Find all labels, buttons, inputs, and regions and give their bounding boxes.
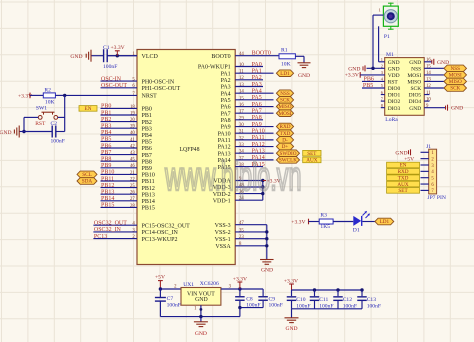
svg-text:2: 2	[381, 64, 383, 69]
svg-text:PB9: PB9	[142, 166, 152, 172]
svg-text:100nF: 100nF	[296, 303, 310, 309]
svg-text:PB11: PB11	[101, 176, 114, 182]
svg-text:PB5: PB5	[142, 140, 152, 146]
svg-text:PB6: PB6	[101, 143, 111, 149]
svg-text:PB2: PB2	[101, 117, 111, 123]
svg-text:EN: EN	[400, 163, 407, 169]
svg-text:AUX: AUX	[397, 182, 408, 188]
svg-text:23: 23	[239, 235, 244, 240]
svg-text:NRST: NRST	[142, 94, 158, 100]
svg-text:PC13: PC13	[94, 234, 107, 240]
svg-text:EN: EN	[85, 106, 92, 112]
svg-text:PA3: PA3	[221, 85, 231, 91]
svg-text:MISO: MISO	[279, 104, 292, 110]
svg-text:PA3: PA3	[252, 82, 262, 88]
svg-text:DIO4: DIO4	[409, 99, 422, 105]
svg-text:PB1: PB1	[142, 113, 152, 119]
svg-text:45: 45	[130, 158, 135, 163]
svg-text:100nF: 100nF	[367, 303, 381, 309]
svg-text:16: 16	[239, 103, 244, 108]
svg-text:C8: C8	[246, 296, 253, 302]
svg-text:PB14: PB14	[142, 199, 155, 205]
svg-text:SCK: SCK	[280, 98, 290, 104]
svg-text:PB13: PB13	[142, 192, 155, 198]
svg-text:PA6: PA6	[252, 102, 262, 108]
svg-text:PA11: PA11	[218, 138, 231, 144]
svg-text:PB6: PB6	[364, 77, 374, 83]
svg-text:VSS-3: VSS-3	[215, 223, 231, 229]
svg-text:RXD: RXD	[398, 169, 409, 175]
svg-text:42: 42	[130, 144, 135, 149]
svg-text:PB7: PB7	[142, 153, 152, 159]
svg-text:DIO0: DIO0	[388, 86, 401, 92]
svg-text:VLCD: VLCD	[142, 54, 159, 60]
svg-text:28: 28	[130, 204, 135, 209]
svg-text:LQFP48: LQFP48	[180, 147, 200, 153]
svg-text:PB4: PB4	[101, 130, 111, 136]
svg-text:AUX: AUX	[306, 158, 317, 164]
svg-text:JP7 PIN: JP7 PIN	[427, 195, 446, 201]
svg-text:SCK: SCK	[410, 86, 421, 92]
svg-text:XC6206: XC6206	[200, 281, 219, 287]
svg-text:+5V: +5V	[155, 274, 165, 280]
svg-text:31: 31	[239, 130, 244, 135]
svg-text:D-: D-	[282, 138, 288, 144]
svg-text:35: 35	[239, 228, 244, 233]
svg-text:100nF: 100nF	[343, 303, 357, 309]
svg-text:PC13-WKUP2: PC13-WKUP2	[142, 237, 178, 243]
svg-text:10K: 10K	[281, 61, 291, 67]
svg-text:DIO5: DIO5	[409, 93, 422, 99]
svg-text:13: 13	[239, 83, 244, 88]
svg-text:40: 40	[130, 131, 135, 136]
svg-text:DIO2: DIO2	[388, 99, 401, 105]
svg-text:PB8: PB8	[101, 157, 111, 163]
svg-text:PA0: PA0	[252, 62, 262, 68]
svg-text:MOSI: MOSI	[279, 111, 292, 117]
svg-text:DIO1: DIO1	[388, 93, 401, 99]
svg-text:LD1: LD1	[380, 219, 390, 225]
svg-text:D1: D1	[353, 228, 360, 234]
svg-text:PB0: PB0	[101, 104, 111, 110]
svg-text:PB1: PB1	[101, 110, 111, 116]
svg-text:SET: SET	[398, 188, 408, 194]
svg-text:27: 27	[130, 197, 135, 202]
svg-text:39: 39	[130, 125, 135, 130]
svg-text:18: 18	[130, 105, 135, 110]
svg-text:C10: C10	[296, 297, 306, 303]
svg-text:PA8: PA8	[221, 118, 231, 124]
svg-text:19: 19	[130, 111, 135, 116]
svg-text:PB10: PB10	[101, 170, 114, 176]
svg-text:PA4: PA4	[221, 91, 231, 97]
svg-text:PB11: PB11	[142, 179, 155, 185]
svg-text:32: 32	[239, 136, 244, 141]
svg-text:20: 20	[130, 118, 135, 123]
svg-text:PA9: PA9	[221, 125, 231, 131]
svg-text:GND: GND	[285, 326, 297, 332]
svg-text:+3.3V: +3.3V	[111, 45, 125, 51]
svg-text:30: 30	[239, 123, 244, 128]
svg-text:R3: R3	[320, 213, 327, 219]
svg-text:GND: GND	[0, 130, 12, 136]
svg-text:12: 12	[239, 76, 244, 81]
svg-text:MISO: MISO	[407, 80, 421, 86]
svg-text:14: 14	[239, 90, 244, 95]
svg-text:R2: R2	[44, 87, 51, 93]
svg-text:PA12: PA12	[252, 142, 265, 148]
svg-text:GND: GND	[195, 331, 207, 337]
svg-text:J1: J1	[426, 144, 431, 150]
svg-text:PB5: PB5	[101, 137, 111, 143]
svg-text:15: 15	[239, 96, 244, 101]
svg-text:UX1: UX1	[183, 282, 194, 288]
svg-text:+3.3V: +3.3V	[345, 73, 359, 79]
svg-text:PB13: PB13	[101, 190, 114, 196]
svg-text:10K: 10K	[45, 99, 55, 105]
svg-text:VSSA: VSSA	[215, 244, 231, 250]
svg-text:C1: C1	[103, 45, 110, 51]
svg-text:RXD: RXD	[280, 124, 291, 130]
svg-text:PB0: PB0	[142, 107, 152, 113]
svg-text:OSC32_OUT: OSC32_OUT	[94, 221, 127, 227]
svg-text:SCL: SCL	[82, 172, 92, 178]
svg-text:PA12: PA12	[218, 145, 231, 151]
svg-text:PA5: PA5	[252, 95, 262, 101]
svg-text:GND: GND	[451, 106, 463, 112]
svg-text:PC15-OSC32_OUT: PC15-OSC32_OUT	[142, 223, 191, 229]
svg-text:PB5: PB5	[363, 83, 373, 89]
svg-text:100nF: 100nF	[319, 303, 333, 309]
svg-text:C7: C7	[167, 296, 174, 302]
svg-text:PB7: PB7	[101, 150, 111, 156]
svg-text:C11: C11	[319, 297, 328, 303]
svg-text:PA2: PA2	[221, 78, 231, 84]
svg-text:VDD: VDD	[388, 73, 400, 79]
svg-text:PB14: PB14	[101, 196, 114, 202]
svg-text:GND: GND	[195, 297, 208, 303]
svg-text:PC14-OSC_IN: PC14-OSC_IN	[142, 230, 179, 236]
svg-text:NSS: NSS	[411, 66, 421, 72]
svg-text:21: 21	[130, 171, 135, 176]
svg-text:1K5: 1K5	[320, 224, 330, 230]
svg-text:GND: GND	[70, 54, 82, 60]
svg-text:M1: M1	[386, 52, 394, 58]
svg-text:PA1: PA1	[252, 68, 262, 74]
svg-text:PA1: PA1	[221, 71, 231, 77]
svg-text:100nF: 100nF	[51, 138, 65, 144]
svg-text:PB9: PB9	[101, 163, 111, 169]
svg-text:22: 22	[130, 177, 135, 182]
svg-text:BOOT0: BOOT0	[211, 54, 230, 60]
svg-text:PA5: PA5	[221, 98, 231, 104]
svg-text:MOSI: MOSI	[407, 73, 421, 79]
svg-text:PA9: PA9	[252, 122, 262, 128]
svg-text:PB12: PB12	[101, 183, 114, 189]
svg-text:PA7: PA7	[221, 111, 231, 117]
svg-text:100nF: 100nF	[103, 64, 117, 70]
svg-text:C12: C12	[343, 297, 353, 303]
svg-text:10: 10	[239, 63, 244, 68]
svg-text:SET: SET	[307, 151, 317, 157]
svg-text:GND: GND	[261, 268, 273, 274]
svg-text:PA11: PA11	[252, 135, 265, 141]
svg-text:+3.3V: +3.3V	[291, 220, 305, 226]
svg-text:PB8: PB8	[142, 159, 152, 165]
svg-text:DIO3: DIO3	[388, 106, 401, 112]
svg-text:33: 33	[239, 143, 244, 148]
svg-text:47: 47	[239, 221, 244, 226]
svg-text:PA4: PA4	[252, 88, 262, 94]
svg-text:43: 43	[130, 151, 135, 156]
svg-text:D+: D+	[282, 144, 289, 150]
svg-text:MOSI: MOSI	[449, 73, 462, 79]
svg-text:GND: GND	[395, 150, 407, 156]
svg-text:C9: C9	[269, 296, 276, 302]
svg-text:RST: RST	[388, 80, 399, 86]
svg-text:LD1: LD1	[280, 71, 290, 77]
svg-text:PH1-OSC-OUT: PH1-OSC-OUT	[142, 86, 181, 92]
svg-text:PB12: PB12	[142, 186, 155, 192]
svg-text:17: 17	[239, 110, 244, 115]
svg-text:GND: GND	[388, 60, 400, 66]
svg-text:C13: C13	[367, 297, 377, 303]
svg-text:PB2: PB2	[142, 120, 152, 126]
svg-text:PB3: PB3	[142, 126, 152, 132]
svg-text:PB15: PB15	[101, 203, 114, 209]
svg-text:PB10: PB10	[142, 173, 155, 179]
svg-text:+5V: +5V	[404, 156, 414, 162]
svg-text:TXD: TXD	[398, 175, 409, 181]
svg-text:100nF: 100nF	[269, 303, 283, 309]
svg-text:44: 44	[239, 52, 244, 57]
svg-text:PA10: PA10	[218, 131, 231, 137]
svg-text:SW1: SW1	[36, 106, 47, 112]
svg-text:PH0-OSC-IN: PH0-OSC-IN	[142, 79, 175, 85]
svg-text:PA7: PA7	[252, 108, 262, 114]
svg-text:PB4: PB4	[142, 133, 152, 139]
svg-text:LoRa: LoRa	[385, 117, 398, 123]
svg-text:PA10: PA10	[252, 129, 265, 135]
svg-text:NSS: NSS	[280, 91, 290, 97]
svg-text:PA8: PA8	[252, 115, 262, 121]
svg-text:SDA: SDA	[82, 179, 93, 185]
svg-text:GND: GND	[298, 73, 310, 79]
svg-text:R1: R1	[281, 48, 288, 54]
svg-text:46: 46	[130, 164, 135, 169]
svg-text:PA2: PA2	[252, 75, 262, 81]
svg-text:41: 41	[130, 138, 135, 143]
svg-text:100nF: 100nF	[167, 302, 181, 308]
svg-text:GND: GND	[409, 60, 421, 66]
svg-text:OSC-OUT: OSC-OUT	[101, 83, 127, 89]
svg-text:1: 1	[381, 57, 383, 62]
svg-text:26: 26	[130, 191, 135, 196]
svg-text:TXD: TXD	[280, 131, 291, 137]
svg-text:VSS-2: VSS-2	[215, 230, 231, 236]
svg-text:OSC-IN: OSC-IN	[101, 76, 122, 82]
svg-text:P1: P1	[384, 34, 390, 40]
svg-text:PA0-WKUP1: PA0-WKUP1	[198, 65, 231, 71]
svg-text:www.hiplo.vn: www.hiplo.vn	[164, 154, 301, 199]
svg-text:100nF: 100nF	[246, 303, 260, 309]
svg-text:PB3: PB3	[101, 124, 111, 130]
svg-text:RST: RST	[35, 121, 46, 127]
svg-text:BOOT0: BOOT0	[252, 51, 271, 57]
svg-text:VSS-1: VSS-1	[215, 237, 231, 243]
svg-text:11: 11	[239, 70, 244, 75]
svg-text:OSC32_IN: OSC32_IN	[94, 227, 122, 233]
svg-text:PB6: PB6	[142, 146, 152, 152]
svg-text:PA6: PA6	[221, 105, 231, 111]
svg-text:SCK: SCK	[450, 86, 460, 92]
svg-text:PB15: PB15	[142, 206, 155, 212]
svg-text:25: 25	[130, 184, 135, 189]
svg-text:29: 29	[239, 116, 244, 121]
svg-text:GND: GND	[388, 66, 400, 72]
svg-text:GND: GND	[409, 106, 421, 112]
